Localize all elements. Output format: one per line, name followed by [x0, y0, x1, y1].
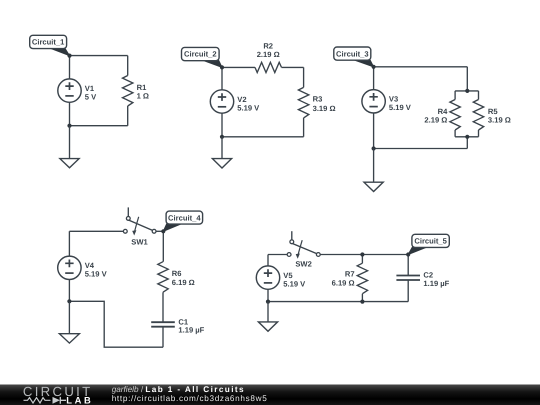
svg-text:2.19 Ω: 2.19 Ω [257, 50, 280, 59]
svg-text:2.19 Ω: 2.19 Ω [424, 115, 447, 124]
svg-text:1.19 µF: 1.19 µF [178, 326, 204, 335]
label R5 value [488, 107, 511, 125]
junction [67, 124, 71, 128]
wire R7 branch [361, 255, 363, 302]
wire R4 leads [454, 91, 456, 137]
label R3 value [313, 94, 336, 113]
voltage source V4 [58, 256, 81, 279]
capacitor C2 [396, 276, 420, 281]
wire circuit3 left branch [373, 67, 375, 149]
wire circuit3 right stem [466, 67, 468, 149]
net label Circuit_1 [30, 35, 70, 55]
junction [161, 229, 165, 233]
ground [258, 302, 277, 332]
svg-text:5.19 V: 5.19 V [283, 280, 306, 289]
junction [220, 65, 224, 69]
wire SW2 to C2 node [320, 254, 408, 256]
svg-text:5 V: 5 V [85, 93, 97, 102]
wire circuit3 parallel tie bars [455, 91, 478, 137]
net label Circuit_4 [163, 211, 202, 231]
wire circuit1 bottom rail [70, 125, 128, 127]
voltage source V2 [210, 90, 233, 113]
svg-text:1 Ω: 1 Ω [137, 91, 149, 100]
wire C2 branch [407, 255, 409, 302]
svg-text:6.19 Ω: 6.19 Ω [172, 278, 195, 287]
junction [465, 89, 469, 93]
resistor R6 [158, 262, 168, 293]
switch SW1 [123, 207, 156, 235]
wire circuit3 top rail [374, 66, 468, 68]
resistor R5 [473, 100, 483, 131]
svg-text:LAB: LAB [66, 395, 93, 405]
wire circuit4 R6/C1 branch [162, 231, 164, 322]
svg-text:Circuit_5: Circuit_5 [414, 237, 447, 246]
junction [360, 300, 364, 304]
resistor R7 [357, 263, 367, 294]
label R4 value [424, 107, 448, 125]
wire circuit1 right branch [127, 56, 129, 126]
junction [266, 300, 270, 304]
junction [67, 299, 71, 303]
junction [67, 54, 71, 58]
svg-text:5.19 V: 5.19 V [85, 270, 108, 279]
voltage source V3 [362, 90, 385, 113]
label C2 value [423, 271, 449, 288]
svg-text:R6: R6 [172, 269, 182, 278]
wire circuit3 bottom rail [374, 148, 468, 150]
label V1 value [85, 84, 97, 102]
wire circuit5 V5 to SW2 [268, 254, 287, 256]
voltage source V1 [58, 79, 81, 102]
svg-text:Circuit_2: Circuit_2 [184, 50, 217, 59]
capacitor C1 [151, 322, 175, 327]
svg-text:Circuit_1: Circuit_1 [32, 38, 65, 47]
junction [360, 252, 364, 256]
wire circuit4 V4 to SW1 [69, 230, 123, 232]
wire circuit1 left branch [69, 56, 71, 126]
wire circuit2 left branch [221, 67, 223, 136]
wire circuit1 top rail [70, 55, 128, 57]
footer bar [0, 385, 540, 405]
svg-text:SW2: SW2 [295, 259, 311, 268]
label R2 value [257, 41, 280, 58]
label R6 value [172, 269, 195, 287]
resistor R2 [255, 62, 282, 72]
svg-text:http://circuitlab.com/cb3dza6n: http://circuitlab.com/cb3dza6nhs8w5 [112, 394, 268, 403]
svg-text:5.19 V: 5.19 V [237, 103, 260, 112]
ground [364, 149, 383, 192]
ground [212, 137, 231, 168]
resistor R1 [123, 76, 133, 107]
junction [406, 252, 410, 256]
svg-text:SW1: SW1 [131, 238, 148, 247]
svg-text:6.19 Ω: 6.19 Ω [332, 278, 355, 287]
junction [465, 135, 469, 139]
CircuitLab logo [23, 384, 93, 405]
svg-text:5.19 V: 5.19 V [389, 103, 412, 112]
wire circuit5 bottom rail [268, 301, 408, 303]
wire circuit2 bottom rail [222, 136, 304, 138]
switch SW2 [287, 231, 320, 259]
junction [372, 146, 376, 150]
wire circuit5 left branch [267, 255, 269, 302]
wire R5 leads [478, 91, 480, 137]
voltage source V5 [256, 266, 279, 289]
resistor R3 [298, 87, 308, 118]
label C1 value [178, 317, 204, 334]
wire circuit2 right branch [303, 67, 305, 136]
svg-text:Circuit_4: Circuit_4 [168, 213, 201, 222]
wire circuit4 left branch [68, 231, 70, 301]
label R7 value [332, 270, 355, 288]
label V2 value [237, 95, 260, 113]
net label Circuit_5 [408, 234, 449, 254]
svg-text:garfielb / Lab 1 - All Circuit: garfielb / Lab 1 - All Circuits [112, 385, 245, 394]
wire circuit4 bottom path [69, 301, 163, 347]
svg-text:Circuit_3: Circuit_3 [336, 49, 369, 58]
svg-text:1.19 µF: 1.19 µF [423, 279, 449, 288]
junction [220, 135, 224, 139]
wire circuit2 top rail [222, 66, 304, 68]
svg-text:R3: R3 [313, 94, 323, 103]
junction [372, 65, 376, 69]
label V3 value [389, 95, 412, 113]
net label Circuit_2 [182, 47, 223, 67]
ground [59, 301, 79, 343]
label V5 value [283, 271, 306, 289]
ground [60, 126, 79, 168]
wire SW1 to node [156, 230, 163, 232]
net label Circuit_3 [334, 47, 374, 67]
resistor R4 [450, 100, 460, 131]
svg-text:3.19 Ω: 3.19 Ω [313, 104, 336, 113]
svg-text:3.19 Ω: 3.19 Ω [488, 115, 511, 124]
label V4 value [85, 261, 108, 279]
label R1 value [137, 83, 149, 101]
